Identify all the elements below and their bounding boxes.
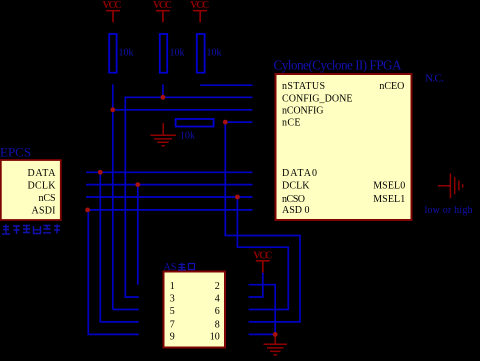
ground (rotated, MSEL low or high): [438, 173, 463, 198]
svg-text:9: 9: [170, 332, 175, 343]
power symbol VCC (top 1): [103, 0, 122, 22]
label AS jie kou (chinese): [164, 262, 195, 273]
svg-text:ASDI: ASDI: [32, 205, 56, 216]
svg-text:nCE: nCE: [282, 118, 301, 129]
wire R1 pin to nCONFIG row and down to AS pin5: [113, 84, 139, 309]
svg-text:10k: 10k: [119, 48, 134, 59]
junction on nCE row: [223, 120, 228, 125]
wire CONFIG_DONE net (corner, to FPGA, down to AS pin3): [125, 97, 252, 297]
svg-text:EPCS: EPCS: [0, 145, 31, 160]
wire VCC to AS pin4: [249, 273, 263, 297]
junction on DATA row: [98, 170, 103, 175]
svg-text:7: 7: [170, 319, 175, 330]
svg-text:DATA: DATA: [28, 168, 57, 179]
svg-text:nCSO: nCSO: [282, 194, 305, 205]
ground (middle, near R4): [150, 123, 176, 146]
svg-text:6: 6: [215, 306, 220, 317]
svg-text:nSTATUS: nSTATUS: [282, 81, 325, 92]
svg-text:nCS: nCS: [39, 193, 56, 204]
wire DATA0 net (EPCS DATA row to FPGA, down to AS pin7): [86, 172, 253, 322]
svg-text:5: 5: [170, 306, 175, 317]
junction on nCS row: [235, 195, 240, 200]
svg-text:Cylone(Cyclone II) FPGA: Cylone(Cyclone II) FPGA: [274, 57, 402, 72]
svg-text:MSEL1: MSEL1: [373, 194, 405, 205]
svg-text:DCLK: DCLK: [28, 180, 57, 191]
wire nCSO net (EPCS nCS row to FPGA, down around to AS pin6): [86, 197, 288, 310]
svg-text:CONFIG_DONE: CONFIG_DONE: [282, 93, 353, 104]
svg-text:VCC: VCC: [103, 0, 122, 11]
wire DCLK net (EPCS DCLK row to FPGA, down to AS pin1): [86, 185, 253, 285]
FPGA U1 box: [276, 74, 412, 220]
junction at bottom ground: [273, 332, 278, 337]
svg-text:8: 8: [215, 319, 220, 330]
junction on ASDI row: [85, 208, 90, 213]
svg-text:nCEO: nCEO: [379, 81, 404, 92]
wire AS pin2 / pin10 to ground: [249, 285, 276, 335]
svg-text:10k: 10k: [180, 131, 195, 142]
svg-text:DATA0: DATA0: [282, 168, 317, 179]
junction on DCLK row: [135, 182, 140, 187]
ground (bottom, AS pin2/10): [264, 334, 288, 355]
svg-text:low or high: low or high: [425, 205, 473, 216]
svg-text:1: 1: [170, 281, 175, 292]
resistor R1 10k (pull-up nCONFIG): [109, 34, 133, 73]
svg-text:2: 2: [215, 281, 220, 292]
svg-text:4: 4: [215, 294, 220, 305]
svg-text:VCC: VCC: [153, 0, 172, 11]
svg-text:ASD 0: ASD 0: [282, 205, 310, 216]
svg-text:VCC: VCC: [253, 250, 272, 261]
svg-text:DCLK: DCLK: [282, 181, 310, 192]
wire nCONFIG net (junction to FPGA): [113, 109, 253, 111]
power symbol VCC (top 2): [153, 0, 172, 22]
wire R2 pin down to CONFIG_DONE row: [162, 84, 164, 97]
resistor R4 10k (horizontal, nCE): [176, 119, 214, 142]
AS header J1 box: [164, 272, 226, 348]
junction on nCONFIG row at R1: [110, 107, 115, 112]
resistor R2 10k (pull-up CONFIG_DONE): [160, 34, 185, 73]
svg-text:VCC: VCC: [190, 0, 209, 11]
wire nSTATUS net (R3 to FPGA): [200, 84, 252, 86]
svg-text:10k: 10k: [170, 48, 185, 59]
svg-text:3: 3: [170, 294, 175, 305]
svg-text:10k: 10k: [207, 48, 222, 59]
power symbol VCC (bottom, AS pin4): [253, 250, 272, 272]
wire ASDI net (EPCS ASDI row to FPGA, down to AS pin9): [88, 210, 253, 335]
svg-text:AS: AS: [164, 262, 177, 273]
label serial config device (chinese): [2, 225, 60, 235]
junction on CONFIG_DONE row at R2: [161, 95, 166, 100]
svg-text:N.C.: N.C.: [425, 73, 444, 85]
EPCS U2 box: [1, 160, 61, 220]
svg-text:MSEL0: MSEL0: [373, 181, 405, 192]
resistor R3 10k (pull-up nSTATUS): [197, 34, 222, 73]
power symbol VCC (top 3): [190, 0, 209, 22]
svg-text:nCONFIG: nCONFIG: [282, 106, 324, 117]
svg-text:10: 10: [210, 332, 220, 343]
wire nCE net (R4 to FPGA, down and to AS pin8): [223, 122, 300, 322]
